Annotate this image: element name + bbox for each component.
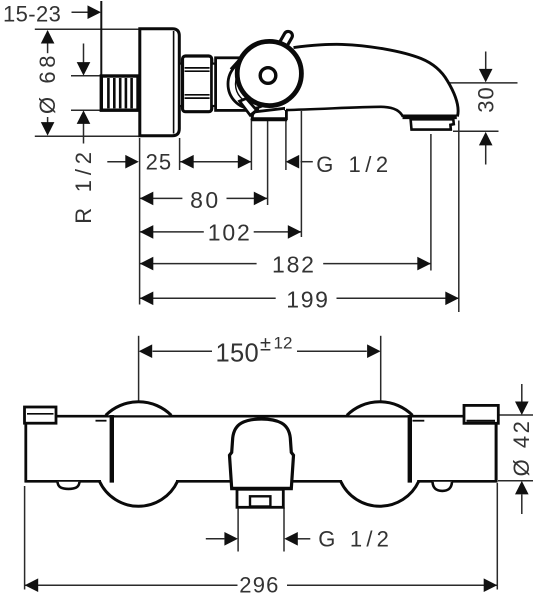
svg-text:G 1/2: G 1/2 — [316, 152, 392, 177]
extension line 30 top — [450, 82, 518, 84]
arrowhead G1/2 right — [284, 532, 298, 546]
dim line dia68 upper segment — [47, 31, 49, 53]
spout outlet lip — [403, 115, 457, 120]
wall flange right — [464, 405, 498, 423]
mixer body bar — [25, 407, 498, 483]
dim line R1/2 upper segment — [83, 44, 85, 64]
extension line at wall face x=139.6 — [139, 138, 141, 305]
temperature knob — [230, 419, 294, 489]
handle knob circle — [237, 41, 301, 105]
union arc bottom right — [341, 481, 419, 506]
svg-text:15-23: 15-23 — [3, 1, 61, 26]
arrowhead 296 left — [25, 578, 39, 592]
extension line, thread top R1/2 — [71, 75, 101, 77]
aerator housing — [411, 119, 454, 129]
arrowhead G1/2 left — [238, 155, 252, 169]
union dome top left — [106, 402, 172, 416]
dim line 182 right segment — [323, 263, 431, 265]
cartridge dome behind handle — [228, 59, 275, 109]
svg-text:296: 296 — [239, 572, 279, 597]
arrowhead 182 left — [140, 257, 154, 271]
wall connection thread R1/2 — [101, 76, 138, 110]
arrowhead 25 left — [125, 155, 139, 169]
dim line 199 right segment — [337, 297, 459, 299]
svg-text:102: 102 — [208, 220, 252, 246]
arrowhead 182 right — [417, 257, 431, 271]
arrowhead 102 left — [140, 225, 154, 239]
svg-text:30: 30 — [473, 86, 498, 112]
svg-text:25: 25 — [146, 150, 172, 175]
svg-text:199: 199 — [286, 286, 329, 312]
arrowhead 102 right — [288, 225, 302, 239]
svg-text:12: 12 — [274, 333, 293, 352]
svg-text:Ø 68: Ø 68 — [35, 52, 60, 114]
valve housing — [216, 58, 258, 111]
dim line 296 left segment — [25, 584, 238, 586]
pipe stub between escutcheon and nut — [179, 64, 183, 106]
arrowhead R1/2 up — [77, 110, 91, 124]
union joint line left — [96, 420, 107, 422]
dim line R1/2 lower segment — [83, 123, 85, 144]
dim line 102 right segment — [254, 231, 302, 233]
arrowhead 30 down — [479, 69, 493, 83]
pipe stub between nut and valve — [212, 64, 216, 106]
dim line 25 left tail — [107, 161, 126, 163]
extension line, escutcheon top — [35, 28, 140, 30]
extension line 150 right — [380, 336, 382, 401]
extension line, escutcheon bottom — [35, 135, 140, 137]
svg-text:182: 182 — [272, 252, 316, 278]
arrowhead 199 left — [140, 292, 154, 306]
svg-text:±: ± — [260, 334, 271, 356]
safety stop button — [250, 496, 270, 506]
union joint line right — [413, 420, 425, 422]
dim line dia42 upper shaft — [521, 384, 523, 402]
arrowhead 25 right — [180, 155, 194, 169]
extension line, thread bottom R1/2 — [71, 109, 101, 111]
arrowhead G1/2 left — [224, 532, 238, 546]
tilted neck piece lower-left of handle — [240, 98, 257, 115]
dash to G1/2 label — [298, 538, 311, 540]
arrowhead 296 right — [484, 578, 498, 592]
extension line G1/2 outlet left — [237, 508, 239, 552]
extension line 182 end x=430.9 — [430, 134, 432, 271]
leader line for dim 15-23 — [72, 11, 91, 13]
handle lever — [282, 36, 288, 47]
arrowhead R1/2 down — [77, 62, 91, 76]
extension line 199 end x=458.8 — [458, 121, 460, 313]
arrowhead 150 right — [367, 344, 381, 358]
arrowhead G1/2 right — [286, 155, 300, 169]
dim line 150 left segment — [153, 350, 213, 352]
spout body — [285, 44, 458, 116]
dim line between 25 and G1/2 — [180, 161, 251, 163]
dim line 30 upper shaft — [485, 52, 487, 71]
arrowhead 80 right — [254, 192, 267, 206]
extension line G1/2 left x=251.4 — [250, 119, 252, 170]
extension line G1/2 outlet right — [283, 508, 285, 552]
extension line valve centre x=267.6 — [267, 121, 269, 205]
arrowhead dia42 up — [515, 481, 529, 495]
knob collar / hose outlet — [237, 489, 283, 507]
svg-text:G 1/2: G 1/2 — [318, 527, 393, 552]
arrowhead 80 left — [140, 192, 154, 206]
dim line G1/2 left tail — [206, 538, 225, 540]
wall flange left — [25, 407, 57, 423]
extension line 296 right — [496, 483, 498, 590]
dim line 182 left segment — [140, 263, 257, 265]
dim line 80 right segment — [227, 197, 268, 199]
dim line 80 left segment — [140, 197, 183, 199]
escutcheon (wall rosette) — [140, 29, 180, 136]
dim line dia68 lower segment — [47, 117, 49, 134]
dim line 296 right segment — [287, 584, 497, 586]
extension line 150 left — [138, 336, 140, 401]
extension line G1/2 right x=285.9 — [285, 118, 287, 170]
extension line 30 bottom — [453, 130, 499, 132]
arrowhead dia68 up — [41, 30, 55, 44]
arrowhead 30 up — [479, 132, 493, 146]
body end edge right — [408, 415, 412, 483]
arrowhead 199 right — [445, 292, 459, 306]
extension line dia42 bottom — [498, 480, 533, 482]
svg-text:R 1/2: R 1/2 — [71, 147, 96, 224]
wall line — [100, 1, 102, 110]
dash to G1/2 label — [301, 161, 313, 163]
union arc bottom left — [100, 481, 178, 506]
extension line 102 end x=301.4 — [300, 111, 302, 237]
handle hub dot — [260, 68, 276, 84]
union dome top right — [347, 402, 413, 416]
svg-text:150: 150 — [216, 340, 259, 368]
spout inlet flange — [251, 108, 287, 119]
dim line 30 lower shaft — [485, 145, 487, 165]
dim line 102 left segment — [140, 231, 204, 233]
body end edge left — [110, 415, 114, 483]
extension line at escutcheon face x=179.6 — [179, 138, 181, 170]
extension line 296 left — [24, 486, 26, 590]
dim line 150 right segment — [297, 350, 367, 352]
arrowhead dia42 down — [515, 402, 529, 416]
arrowhead 150 left — [139, 344, 153, 358]
extension line dia42 top — [498, 414, 533, 416]
arrowhead 15-23 right — [88, 5, 102, 19]
check-valve bump left — [58, 482, 80, 489]
check-valve bump right — [433, 482, 453, 491]
svg-text:Ø 42: Ø 42 — [509, 419, 534, 477]
dim line 199 left segment — [140, 297, 276, 299]
svg-text:80: 80 — [190, 187, 221, 213]
arrowhead dia68 down — [41, 122, 55, 136]
dim line dia42 lower shaft — [521, 495, 523, 515]
union nut — [183, 56, 212, 112]
